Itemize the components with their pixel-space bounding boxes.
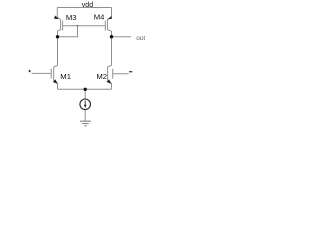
wire M4 drain to M2 drain [111,31,113,65]
transistor M3 (PMOS, diode-connected) [57,17,62,31]
label + input [28,70,30,72]
wire M1 source to tail [57,84,59,90]
wire M4 source pole to vdd [111,8,113,18]
svg-text:M4: M4 [94,13,105,22]
wire output stub [112,36,132,38]
transistor M1 (NMOS, left of diff pair) [51,65,57,83]
label - input [129,71,132,72]
wire gate bus M3-M4 [63,25,106,27]
svg-text:M1: M1 [60,72,71,81]
wire diode link M3 drain to gate bus [58,26,78,37]
net vdd: power rail [57,7,111,9]
arrow M2 source (NMOS) [107,79,112,84]
wire M3 source pole to vdd [56,8,58,18]
wire M2 source to tail [111,84,113,90]
junction node output [110,35,113,38]
arrow M3 source (PMOS) [54,16,59,20]
current source I1 circle [80,99,91,110]
svg-text:M2: M2 [96,72,107,81]
junction node tail [84,88,87,91]
wire M3 drain to M1 drain [57,31,59,65]
wire tail node [58,88,112,90]
current source arrow [84,100,86,105]
svg-text:M3: M3 [66,13,77,22]
transistor M4 (PMOS) [105,17,111,31]
wire M1 gate input [32,72,52,74]
wire M2 gate input [113,73,129,75]
transistor M2 (NMOS, right of diff pair) [108,65,113,83]
junction node gate bus / diode link [77,25,79,27]
wire tail to current source [84,89,86,99]
wire current source to ground [84,110,86,121]
junction node M3 drain / diode link [56,35,59,38]
svg-text:vdd: vdd [82,2,93,9]
svg-text:out: out [136,35,145,42]
arrow M1 source (NMOS) [53,79,58,84]
ground [80,121,91,126]
arrow M4 source (PMOS) [108,16,112,19]
